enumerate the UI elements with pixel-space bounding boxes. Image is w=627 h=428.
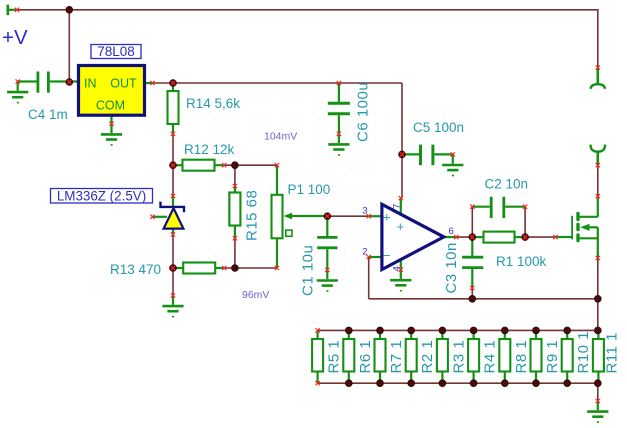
svg-text:C1 10u: C1 10u [300,245,317,296]
svg-text:R1 100k: R1 100k [496,254,547,269]
svg-text:7: 7 [392,203,403,209]
svg-text:R4 1: R4 1 [482,340,499,374]
svg-text:6: 6 [449,226,454,237]
svg-text:R2 1: R2 1 [419,340,436,374]
svg-text:OUT: OUT [110,77,137,91]
svg-text:R6 1: R6 1 [357,340,374,374]
svg-text:+: + [383,210,391,225]
svg-text:R13 470: R13 470 [110,262,161,277]
svg-text:R11 1: R11 1 [604,332,621,373]
svg-text:4: 4 [392,266,403,272]
svg-text:C3 10n: C3 10n [443,242,460,293]
svg-text:−: − [383,248,391,263]
svg-text:P1 100: P1 100 [288,182,331,197]
svg-text:+V: +V [2,26,28,49]
svg-text:R8 1: R8 1 [513,340,530,374]
svg-text:C2 10n: C2 10n [485,177,529,192]
svg-text:R10 1: R10 1 [575,331,592,374]
svg-text:C5 100n: C5 100n [413,120,464,135]
svg-text:R7 1: R7 1 [388,340,405,374]
svg-text:3: 3 [362,206,367,217]
svg-text:2: 2 [362,247,367,258]
svg-text:R15 68: R15 68 [244,190,261,241]
svg-text:R14 5,6k: R14 5,6k [186,96,240,111]
svg-text:R9 1: R9 1 [544,340,561,374]
svg-text:IN: IN [84,77,97,91]
svg-text:R3 1: R3 1 [450,340,467,374]
svg-text:LM336Z (2.5V): LM336Z (2.5V) [57,188,146,203]
svg-text:78L08: 78L08 [97,44,135,59]
svg-text:R5 1: R5 1 [326,340,343,374]
svg-text:COM: COM [96,99,125,113]
svg-text:104mV: 104mV [264,131,297,143]
svg-text:96mV: 96mV [242,289,269,301]
svg-text:C6 100u: C6 100u [355,82,372,142]
svg-text:C4 1m: C4 1m [28,107,68,122]
svg-text:R12 12k: R12 12k [184,142,235,157]
svg-text:+: + [397,219,405,234]
